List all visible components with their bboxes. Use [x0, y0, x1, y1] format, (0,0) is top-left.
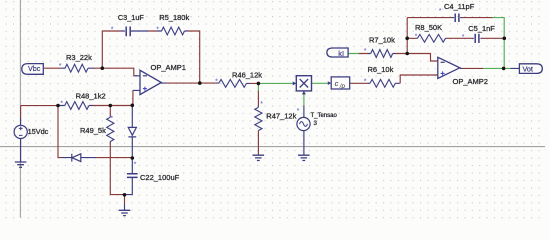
svg-text:R7_10k: R7_10k [369, 36, 395, 45]
svg-text:T_Tensao: T_Tensao [311, 113, 338, 119]
svg-text:R47_12k: R47_12k [266, 112, 296, 121]
svg-text:R8_50K: R8_50K [415, 23, 442, 32]
svg-text:*: * [364, 79, 367, 86]
svg-text:*: * [215, 79, 218, 86]
svg-text:*: * [111, 27, 114, 34]
svg-text:OP_AMP2: OP_AMP2 [453, 77, 488, 86]
svg-text:*: * [134, 162, 137, 169]
svg-text:R3_22k: R3_22k [66, 53, 92, 62]
svg-text:*: * [439, 8, 442, 15]
svg-text:*: * [260, 101, 263, 108]
svg-text:OP_AMP1: OP_AMP1 [151, 63, 186, 72]
svg-text:Vbc: Vbc [28, 64, 41, 73]
svg-text:*: * [297, 108, 300, 115]
svg-text:c: c [335, 79, 339, 88]
svg-text:C4_11pF: C4_11pF [444, 2, 475, 11]
svg-text:*: * [59, 63, 62, 70]
svg-text:kI: kI [338, 49, 344, 58]
svg-text:R49_5k: R49_5k [80, 126, 106, 135]
svg-text:R48_1k2: R48_1k2 [76, 92, 106, 101]
svg-text:R5_180k: R5_180k [159, 13, 189, 22]
svg-text:*: * [364, 48, 367, 55]
svg-text:*: * [110, 116, 113, 123]
svg-text:C22_100uF: C22_100uF [140, 173, 180, 182]
svg-text:*: * [156, 27, 159, 34]
svg-text:*: * [462, 34, 465, 41]
svg-text:C5_1nF: C5_1nF [468, 24, 495, 33]
svg-text:R46_12k: R46_12k [232, 70, 262, 79]
svg-text:15Vdc: 15Vdc [28, 127, 49, 136]
svg-text:/p: /p [339, 83, 346, 90]
svg-text:*: * [415, 34, 418, 41]
svg-text:*: * [60, 101, 63, 108]
svg-text:Vot: Vot [523, 64, 533, 73]
svg-text:3: 3 [314, 120, 318, 127]
svg-text:C3_1uF: C3_1uF [118, 13, 145, 22]
svg-text:R6_10k: R6_10k [368, 65, 394, 74]
